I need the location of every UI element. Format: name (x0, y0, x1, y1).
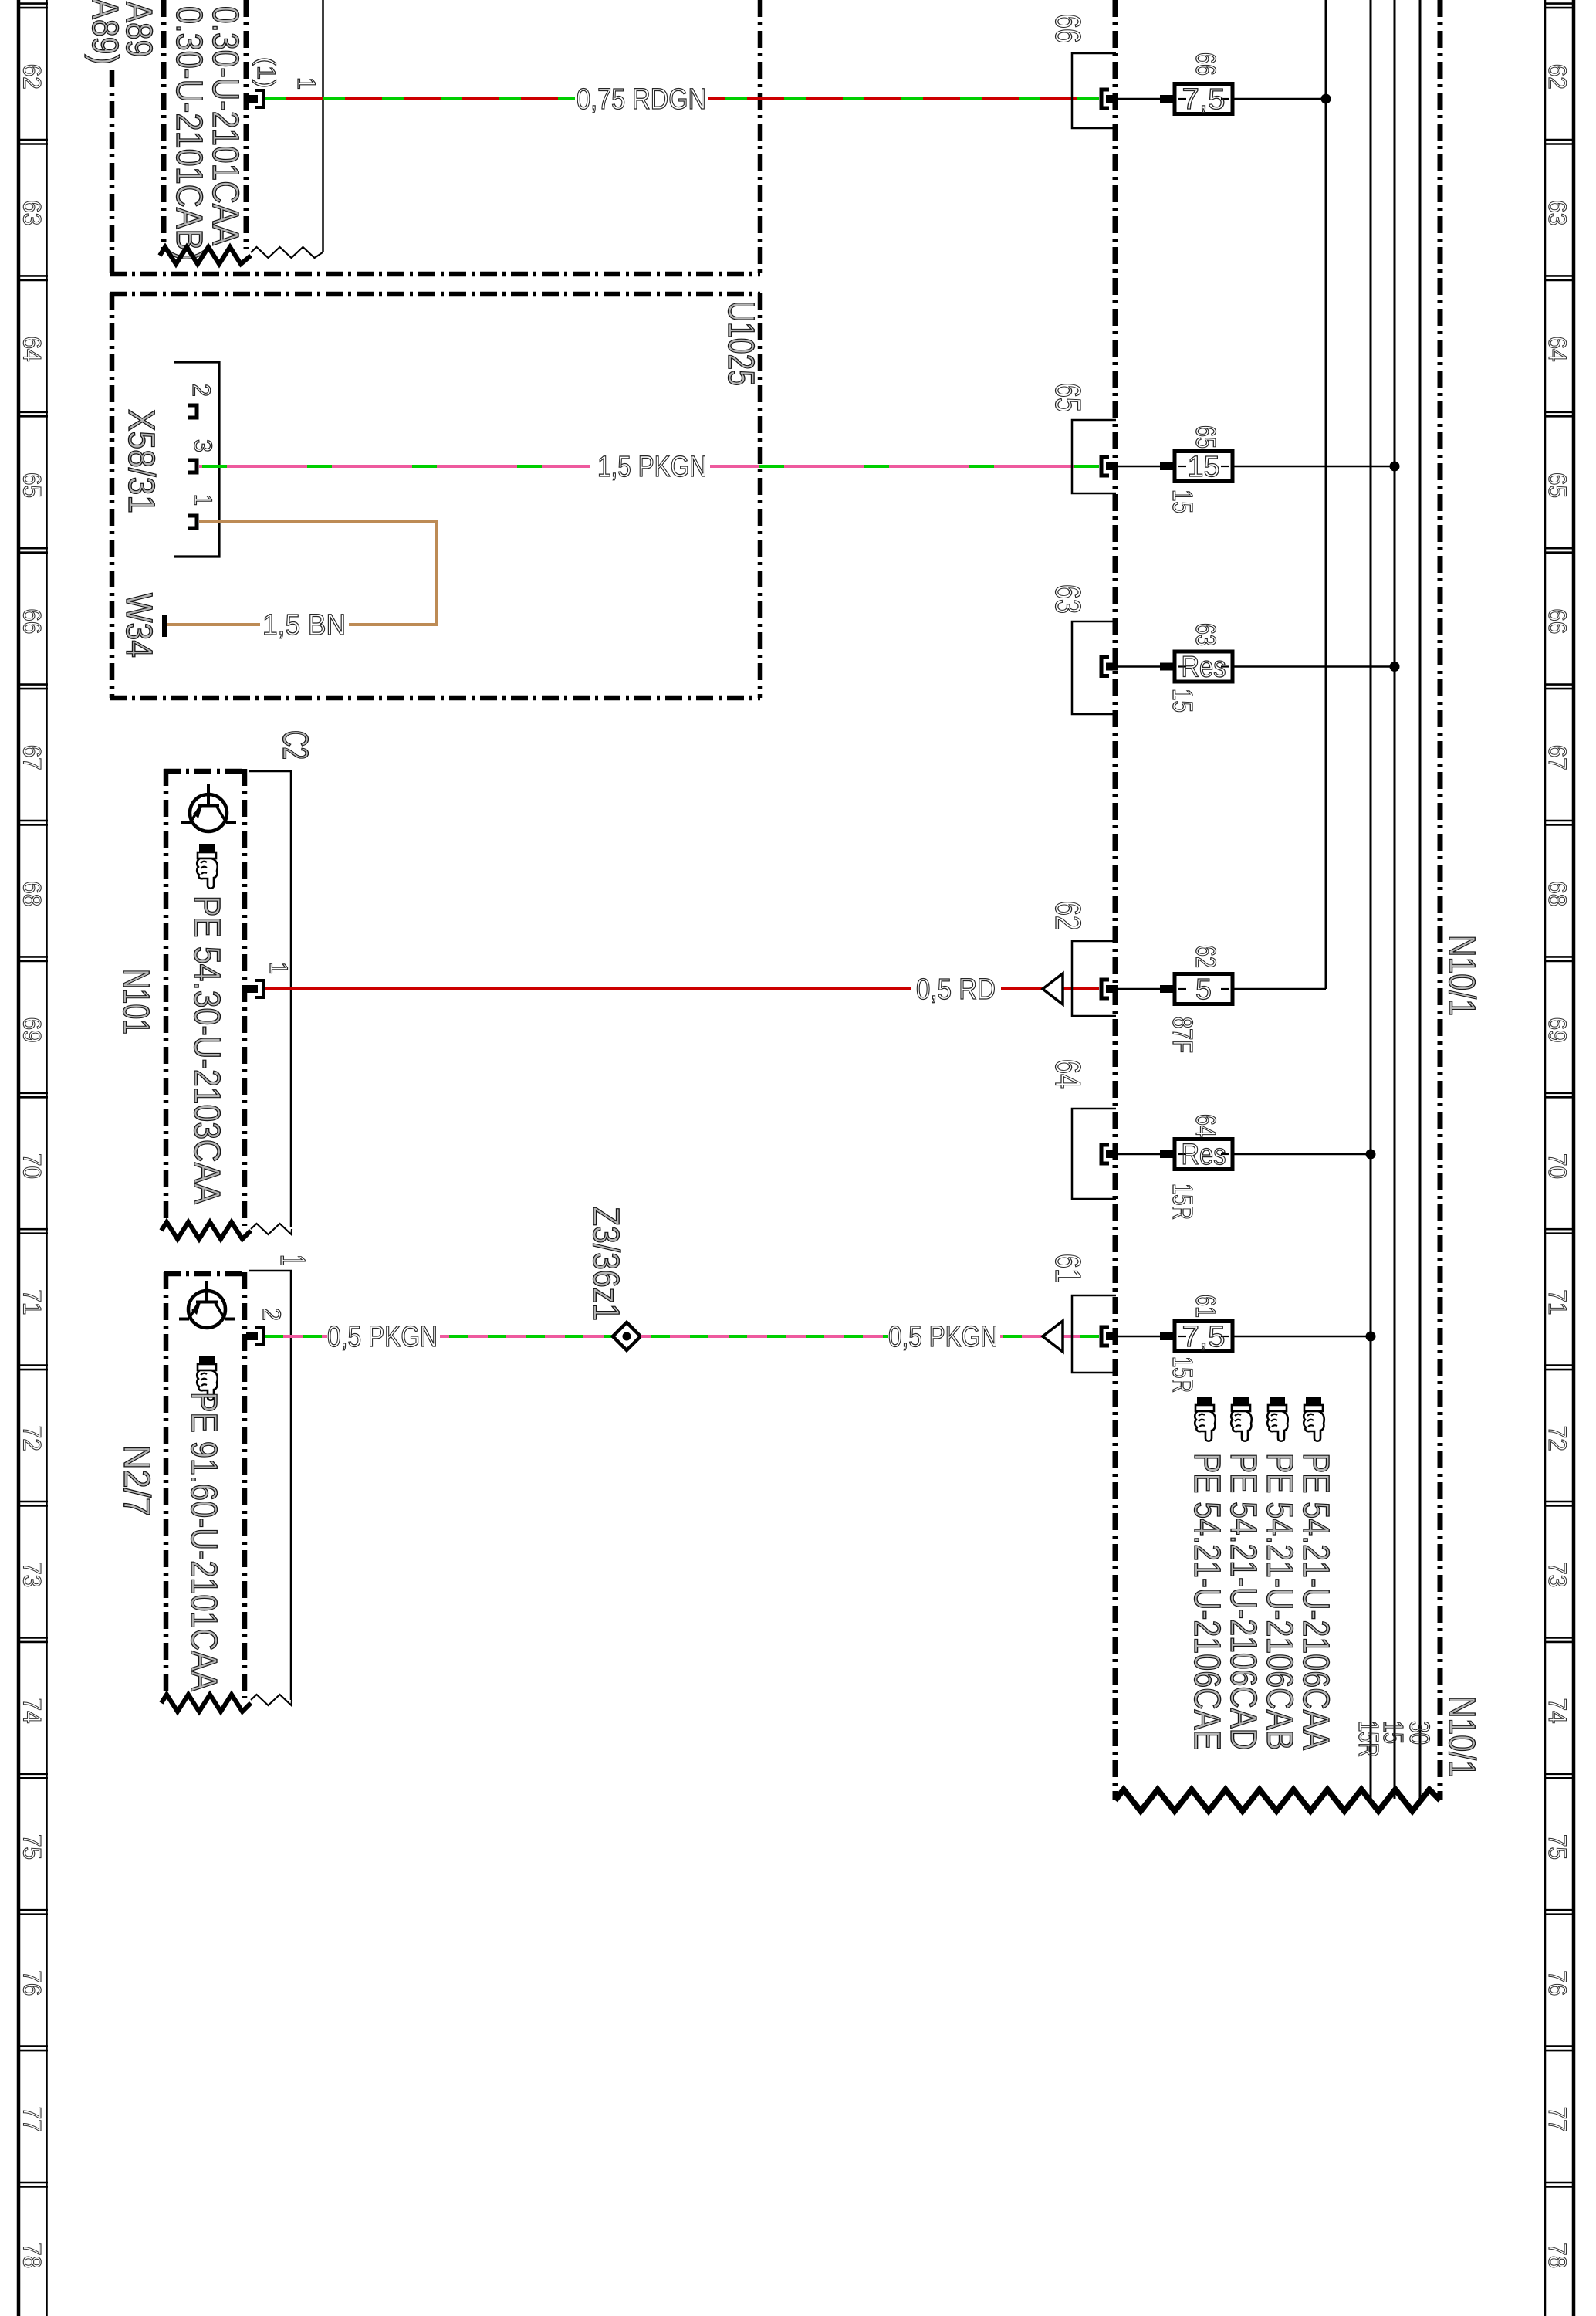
svg-text:76: 76 (1544, 1970, 1571, 1996)
border cell separator row 2 (17, 275, 48, 277)
svg-text:C2: C2 (276, 730, 316, 760)
svg-text:62: 62 (1190, 945, 1222, 968)
control unit A89 box left edge (110, 70, 115, 274)
page border left frame line (17, 0, 21, 2316)
svg-text:15: 15 (1188, 451, 1220, 483)
svg-text:66: 66 (1544, 608, 1571, 634)
A89 connector bracket line (322, 0, 324, 252)
svg-text:66: 66 (19, 608, 46, 634)
N2/7 torn edge zigzag (161, 1695, 251, 1712)
N101 pointing hand icon (197, 844, 218, 889)
connector bracket at N10/1 row 64 (1072, 1109, 1116, 1199)
svg-text:67: 67 (1544, 745, 1571, 770)
border cell separator row 14 (17, 1909, 48, 1911)
svg-text:64: 64 (19, 337, 46, 362)
fuse pin bar 62 (1160, 985, 1175, 993)
svg-text:72: 72 (19, 1426, 46, 1451)
svg-text:65: 65 (19, 472, 46, 498)
border cell separator row 3 (17, 411, 48, 413)
border cell separator row 6 (17, 820, 48, 822)
svg-text:63: 63 (1544, 200, 1571, 225)
svg-text:2: 2 (188, 384, 215, 397)
svg-text:63: 63 (1048, 584, 1088, 614)
svg-text:2: 2 (258, 1308, 286, 1321)
svg-text:N10/1: N10/1 (1441, 935, 1482, 1016)
fuse 65 value 15 (1175, 452, 1233, 482)
svg-text:61: 61 (1190, 1295, 1222, 1318)
svg-text:3: 3 (189, 439, 217, 452)
svg-text:73: 73 (1544, 1562, 1571, 1587)
svg-text:15R: 15R (1167, 1356, 1199, 1393)
svg-text:65: 65 (1190, 425, 1222, 449)
wire from fuse 65 to bus (1233, 466, 1395, 468)
U1025 box top edge (110, 292, 760, 297)
N2/7 pointing hand icon (197, 1356, 218, 1400)
border cell separator row 9 (17, 1228, 48, 1231)
wire from pin to fuse 63 (1118, 665, 1162, 668)
svg-text:76: 76 (19, 1970, 46, 1996)
A89 harness sub-box right edge (244, 0, 249, 249)
svg-text:62: 62 (1544, 64, 1571, 90)
wire from pin to fuse 61 (1118, 1336, 1162, 1338)
svg-text:PE 54.21-U-2106CAE: PE 54.21-U-2106CAE (1186, 1453, 1227, 1750)
wire 0,5 PKGN segment to splice (440, 1335, 613, 1338)
svg-text:0.30-U-2101CAB): 0.30-U-2101CAB) (168, 6, 209, 261)
connector bracket at N10/1 row 61 (1072, 1295, 1116, 1373)
svg-text:77: 77 (1544, 2107, 1571, 2132)
wire from pin to fuse 64 (1118, 1153, 1162, 1156)
svg-text:0.30-U-2101CAA: 0.30-U-2101CAA (205, 6, 245, 245)
svg-text:63: 63 (19, 200, 46, 225)
svg-text:N10/1: N10/1 (1441, 1696, 1482, 1777)
svg-text:67: 67 (19, 745, 46, 770)
ground point W34 terminal (162, 615, 167, 637)
control unit A89 box bottom edge (110, 272, 760, 277)
wire from fuse 62 to bus (1233, 988, 1326, 990)
svg-text:1,5 PKGN: 1,5 PKGN (597, 451, 707, 483)
wire 1,5 BN segment to W34 (166, 623, 260, 626)
svg-text:71: 71 (19, 1289, 46, 1315)
connector bracket at N10/1 row 62 (1072, 941, 1116, 1016)
connector bracket at N10/1 row 66 (1072, 53, 1116, 128)
border cell separator row 13 (17, 1773, 48, 1776)
connector bracket at N10/1 row 65 (1072, 420, 1116, 493)
fuse pin bar 66 (1160, 95, 1175, 103)
fuse pin bar 63 (1160, 663, 1175, 671)
direction arrow on 0,5 PKGN (1043, 1321, 1063, 1352)
fuse 63 value Res (1175, 652, 1233, 682)
fuse 64 value Res (1175, 1139, 1233, 1170)
fuse pin bar 65 (1160, 462, 1175, 470)
border cell separator row 8 (17, 1092, 48, 1095)
N10/1 pin contact row 62 (1101, 980, 1118, 998)
svg-text:PE 54.30-U-2103CAA: PE 54.30-U-2103CAA (186, 896, 227, 1204)
fuse 62 value 5 (1175, 974, 1233, 1004)
N10/1 pin contact row 61 (1101, 1327, 1118, 1346)
N2/7 bracket torn edge thin zigzag (251, 1695, 292, 1705)
svg-text:N2/7: N2/7 (116, 1445, 157, 1516)
svg-text:63: 63 (1190, 623, 1222, 646)
svg-text:30: 30 (1404, 1721, 1435, 1745)
svg-text:X58/31: X58/31 (120, 409, 161, 513)
control unit A89 box right edge (758, 0, 763, 274)
border cell separator row 10 (17, 1364, 48, 1366)
svg-text:(1): (1) (252, 57, 280, 88)
svg-text:15: 15 (1167, 489, 1199, 513)
svg-text:7,5: 7,5 (1182, 83, 1226, 116)
svg-text:61: 61 (1048, 1254, 1088, 1283)
border cell separator row 1 (17, 139, 48, 141)
svg-text:N101: N101 (115, 969, 156, 1034)
N10/1 pin contact row 63 (1101, 658, 1118, 676)
N101 torn edge zigzag (161, 1222, 251, 1239)
N2/7 connector bracket line (249, 1271, 291, 1700)
svg-text:74: 74 (19, 1698, 46, 1724)
wire 0,5 RD from N101 pin 1 (265, 987, 911, 990)
svg-text:Res: Res (1182, 1139, 1226, 1171)
N101 bracket torn edge thin zigzag (251, 1224, 292, 1234)
N10/1 pointing hand icon (CAA) (1304, 1397, 1324, 1441)
svg-text:68: 68 (1544, 881, 1571, 906)
svg-text:69: 69 (19, 1017, 46, 1043)
junction node row 64 (1366, 1150, 1376, 1160)
wire from fuse 61 to bus (1233, 1336, 1371, 1338)
svg-text:78: 78 (1544, 2243, 1571, 2268)
svg-text:64: 64 (1048, 1059, 1088, 1089)
border cell separator row 7 (17, 956, 48, 958)
svg-text:1: 1 (265, 962, 292, 974)
N2/7 pin 2 contact (246, 1328, 264, 1345)
A89 bracket torn edge thin zigzag (251, 247, 323, 258)
svg-text:U1025: U1025 (720, 301, 761, 386)
wire 0,5 PKGN segment from splice (641, 1335, 888, 1338)
svg-text:15: 15 (1167, 689, 1199, 713)
N10/1 pointing hand icon (CAE) (1195, 1397, 1216, 1441)
svg-text:7,5: 7,5 (1182, 1321, 1226, 1353)
control unit N2/7 box left edge (164, 1272, 169, 1698)
wire from pin to fuse 65 (1118, 466, 1162, 468)
N2/7 box right edge (242, 1272, 248, 1698)
wire 0,75 RDGN segment from A89 pin 1 (265, 97, 575, 100)
svg-text:Z3/36z1: Z3/36z1 (585, 1207, 626, 1321)
wire 0,5 PKGN segment to arrow (1000, 1335, 1099, 1338)
svg-text:0,5 PKGN: 0,5 PKGN (888, 1321, 998, 1353)
svg-text:64: 64 (1544, 337, 1571, 362)
junction node row 66 (1321, 94, 1331, 104)
X58/31 pin 1 contact (188, 516, 197, 528)
svg-text:75: 75 (1544, 1834, 1571, 1860)
N10/1 pin contact row 64 (1101, 1145, 1118, 1163)
border cell separator row 11 (17, 1501, 48, 1503)
N10/1 pin contact row 65 (1101, 457, 1118, 476)
A89 harness sub-box left edge (161, 0, 167, 249)
bus line circuit 30 (1419, 0, 1422, 1799)
border cell separator row 5 (17, 683, 48, 686)
svg-text:15R: 15R (1167, 1183, 1199, 1220)
wire 1,5 PKGN segment from X58/31 pin 3 (199, 465, 590, 468)
N2/7 transistor symbol (179, 1281, 235, 1328)
bus line circuit 15 (1394, 0, 1396, 1799)
fuse pin bar 64 (1160, 1150, 1175, 1158)
N101 box right edge (242, 769, 248, 1226)
X58/31 pin 2 contact (188, 405, 197, 418)
N10/1 bottom torn edge zigzag (1115, 1789, 1440, 1811)
border cell separator row 4 (17, 547, 48, 550)
svg-text:73: 73 (19, 1562, 46, 1587)
connector X58/31 body (174, 362, 219, 557)
border cell separator row 0 (17, 2, 48, 5)
N101 pin 1 contact (246, 980, 264, 997)
junction node row 61 (1366, 1332, 1376, 1342)
page border left strip inner line (46, 0, 48, 2316)
svg-text:71: 71 (1544, 1289, 1571, 1315)
wire from pin to fuse 66 (1118, 98, 1162, 100)
svg-text:5: 5 (1195, 973, 1212, 1006)
wire from fuse 64 to bus (1233, 1153, 1371, 1156)
direction arrow on 0,5 RD (1043, 973, 1063, 1004)
wire from fuse 63 to bus (1233, 665, 1395, 668)
splice node Z3/36z1 diamond (613, 1322, 641, 1350)
U1025 box bottom edge (110, 696, 760, 701)
N10/1 pointing hand icon (CAB) (1267, 1397, 1288, 1441)
svg-text:0,5 RD: 0,5 RD (916, 973, 996, 1006)
svg-text:66: 66 (1190, 52, 1222, 76)
svg-text:78: 78 (19, 2243, 46, 2268)
svg-text:W34: W34 (118, 593, 159, 658)
bus line circuit 15R (1370, 0, 1372, 1799)
bus line circuit 30 feed (internal) (1325, 0, 1327, 989)
svg-text:65: 65 (1048, 383, 1088, 412)
N10/1 pointing hand icon (CAD) (1231, 1397, 1252, 1441)
wire from fuse 66 to bus (1233, 98, 1326, 100)
wire 1,5 PKGN segment to N10/1 pin (710, 465, 1099, 468)
svg-text:1: 1 (189, 494, 217, 506)
svg-text:66: 66 (1048, 14, 1088, 43)
wire 0,5 RD segment to arrow (1001, 987, 1099, 990)
svg-text:0,75 RDGN: 0,75 RDGN (577, 83, 706, 116)
amplifier U1025 box left edge (110, 293, 115, 698)
control unit N101 box left edge (164, 769, 169, 1226)
page border right frame line (1572, 0, 1576, 2316)
svg-text:Res: Res (1182, 652, 1226, 684)
U1025 box right edge (758, 293, 763, 698)
svg-text:PE 54.21-U-2106CAB: PE 54.21-U-2106CAB (1259, 1453, 1300, 1750)
svg-text:72: 72 (1544, 1426, 1571, 1451)
A89 pin 1 contact (246, 90, 264, 107)
N101 connector bracket C2 line (249, 771, 291, 1227)
svg-text:68: 68 (19, 881, 46, 906)
svg-text:62: 62 (1048, 901, 1088, 930)
N2/7 box top edge (164, 1271, 246, 1277)
fuse pin bar 61 (1160, 1332, 1175, 1340)
svg-text:75: 75 (19, 1834, 46, 1860)
A89 sub-box torn edge zigzag (160, 247, 251, 264)
junction node row 63 (1390, 662, 1400, 672)
N101 transistor symbol (181, 784, 236, 831)
svg-text:62: 62 (19, 64, 46, 90)
svg-text:0,5 PKGN: 0,5 PKGN (327, 1321, 438, 1353)
connector bracket at N10/1 row 63 (1072, 621, 1116, 714)
wire from pin to fuse 62 (1118, 988, 1162, 990)
page border right strip inner line (1544, 0, 1547, 2316)
svg-text:74: 74 (1544, 1698, 1571, 1724)
svg-text:PE 54.21-U-2106CAD: PE 54.21-U-2106CAD (1222, 1453, 1263, 1750)
wire 0,75 RDGN segment to N10/1 pin (708, 97, 1099, 100)
svg-text:PE 54.21-U-2106CAA: PE 54.21-U-2106CAA (1295, 1453, 1336, 1750)
N101 box top edge (164, 769, 246, 774)
X58/31 pin 3 contact (188, 460, 197, 472)
svg-text:70: 70 (19, 1153, 46, 1179)
svg-text:64: 64 (1190, 1114, 1222, 1137)
svg-text:70: 70 (1544, 1153, 1571, 1179)
svg-text:PE 91.60-U-2101CAA: PE 91.60-U-2101CAA (183, 1392, 224, 1691)
fuse 66 value 7,5 (1175, 84, 1233, 114)
junction node row 65 (1390, 462, 1400, 472)
svg-text:1: 1 (292, 77, 320, 90)
svg-text:87F: 87F (1167, 1017, 1199, 1053)
svg-text:1,5 BN: 1,5 BN (262, 609, 346, 642)
border cell separator row 16 (17, 2182, 48, 2184)
border cell separator row 15 (17, 2045, 48, 2047)
svg-text:69: 69 (1544, 1017, 1571, 1043)
wire 1,5 BN from X58/31 pin 1 (199, 522, 437, 625)
svg-text:65: 65 (1544, 472, 1571, 498)
fuse and relay module N10/1 left edge (1113, 0, 1118, 1800)
fuse 61 value 7,5 (1175, 1322, 1233, 1352)
wire 0,5 PKGN from N2/7 pin 2 (265, 1335, 327, 1338)
svg-text:1: 1 (273, 1254, 313, 1266)
border cell separator row 12 (17, 1637, 48, 1639)
N10/1 right edge (1438, 0, 1443, 1800)
svg-text:(A89): (A89) (84, 0, 125, 65)
N10/1 pin contact row 66 (1101, 90, 1118, 108)
svg-text:77: 77 (19, 2107, 46, 2132)
